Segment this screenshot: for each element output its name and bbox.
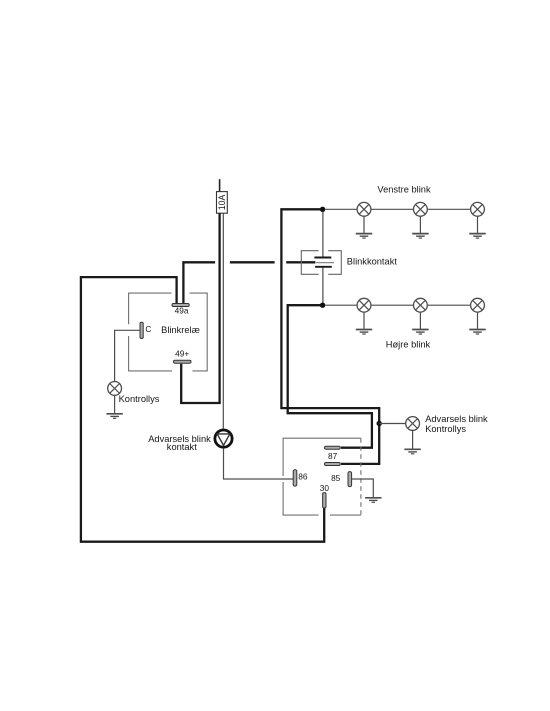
switch S1 blinkkontakt <box>301 251 341 275</box>
wire hazard switch to terminal 86 <box>224 448 294 479</box>
terminal 86 <box>293 470 297 486</box>
terminal 49a <box>172 304 189 307</box>
wire fuse top stub <box>219 179 221 191</box>
svg-text:Venstre blink: Venstre blink <box>377 184 431 194</box>
wire C to kontrollys lamp <box>115 330 140 381</box>
relay box blinkrelae <box>129 293 208 371</box>
lamp L1 venstre <box>357 202 371 233</box>
svg-text:C: C <box>145 324 151 334</box>
svg-text:10A: 10A <box>217 194 227 210</box>
switch advarsels blink kontakt <box>215 430 232 447</box>
node advarsels junction <box>377 421 382 426</box>
lamp L6 hoejre <box>471 298 485 329</box>
svg-text:49a: 49a <box>175 305 189 315</box>
wire blinkkontakt upper <box>322 209 324 257</box>
terminal 49+ <box>174 360 192 363</box>
node venstre junction <box>320 207 325 212</box>
wire blinkkontakt lower <box>322 267 324 305</box>
ground lamp L3 <box>469 234 485 239</box>
ground lamp L6 <box>469 330 485 335</box>
terminal C <box>140 322 143 338</box>
ground lamp L2 <box>412 234 428 239</box>
lamp advarsels kontrollys <box>406 417 420 449</box>
wire advarsels junction to kontrollys lamp <box>379 423 406 425</box>
lamp L5 hoejre <box>414 298 428 329</box>
lamp kontrollys <box>108 382 122 414</box>
svg-text:Blinkkontakt: Blinkkontakt <box>347 257 398 267</box>
svg-text:kontakt: kontakt <box>167 442 197 452</box>
svg-text:49+: 49+ <box>175 349 189 359</box>
svg-text:30: 30 <box>320 483 330 493</box>
svg-text:Højre blink: Højre blink <box>386 340 431 350</box>
svg-text:Advarsels blink: Advarsels blink <box>425 414 488 424</box>
terminal 30 <box>323 493 326 508</box>
wire hoejre feed to upper 87 <box>288 305 372 448</box>
relay box advarsels <box>283 438 361 515</box>
ground advarsels kontrollys <box>404 449 420 454</box>
svg-text:86: 86 <box>298 472 308 482</box>
wire fuse to terminal 49+ <box>181 213 219 403</box>
relay box dashed edge <box>360 438 362 515</box>
ground lamp L4 <box>356 330 372 335</box>
svg-text:87: 87 <box>328 451 338 461</box>
terminal 87 upper <box>325 446 341 449</box>
wire 85 to ground <box>352 479 374 497</box>
terminal 87 lower <box>325 463 341 466</box>
lamp L4 hoejre <box>357 298 371 329</box>
wire outer loop 49a to terminal 30 <box>81 277 324 542</box>
svg-text:Kontrollys: Kontrollys <box>119 394 160 404</box>
fuse F1 10A <box>217 192 228 214</box>
svg-text:85: 85 <box>331 473 341 483</box>
wire fuse to hazard switch <box>222 213 224 429</box>
terminal 85 <box>348 472 352 487</box>
svg-text:Blinkrelæ: Blinkrelæ <box>161 325 200 335</box>
wire blinkkontakt feed to terminal 49a <box>183 262 315 303</box>
svg-text:Kontrollys: Kontrollys <box>425 424 466 434</box>
ground 85 <box>365 498 381 503</box>
node hoejre junction <box>320 303 325 308</box>
ground lamp L1 <box>356 234 372 239</box>
wire venstre lamp row <box>325 208 470 210</box>
wire hoejre lamp row <box>325 304 470 306</box>
wire venstre feed to lower 87 <box>281 209 379 464</box>
lamp L3 venstre <box>471 202 485 233</box>
ground lamp L5 <box>412 330 428 335</box>
lamp L2 venstre <box>414 202 428 233</box>
ground kontrollys <box>106 414 122 419</box>
